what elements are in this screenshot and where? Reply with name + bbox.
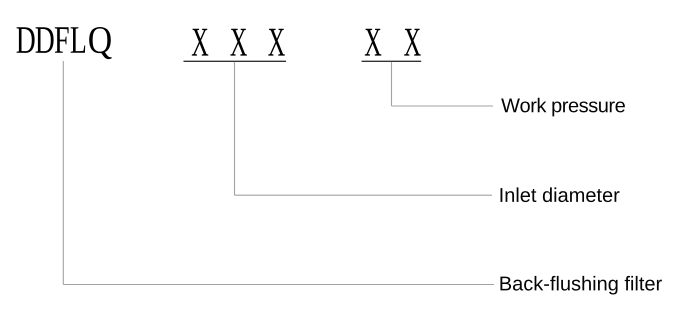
underline under X X X [184, 60, 287, 62]
model code DDFLQ [17, 27, 112, 59]
digit placeholders X X (work pressure code) [365, 29, 421, 56]
leader line from DDFLQ (vertical) [62, 61, 64, 285]
leader line to Back-flushing filter label (horizontal) [63, 284, 494, 286]
leader line from X X underline (vertical) [391, 62, 393, 106]
label: Back-flushing filter [500, 276, 661, 295]
leader line to Work pressure label (horizontal) [392, 105, 494, 107]
label: Work pressure [501, 98, 625, 117]
leader line to Inlet diameter label (horizontal) [235, 194, 493, 196]
label: Inlet diameter [500, 187, 619, 202]
leader line from X X X underline (vertical) [234, 62, 236, 195]
digit placeholders X X X (inlet diameter code) [192, 29, 285, 56]
underline under X X [362, 60, 422, 62]
